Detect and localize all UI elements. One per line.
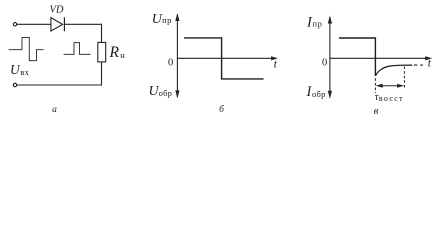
waveform: forward current level and reverse drop [339, 38, 375, 76]
svg-text:0: 0 [168, 58, 173, 69]
terminal: input top [13, 23, 16, 26]
waveform: reverse recovery curve [375, 65, 412, 76]
terminal: input bottom [13, 83, 16, 86]
wire: bottom return [17, 84, 102, 86]
svg-text:в: в [374, 106, 379, 117]
waveform: diode voltage square wave [184, 38, 264, 79]
wire: diode cathode to corner [64, 23, 102, 25]
axis: vertical Uпр/Uобр (panel б) [175, 13, 179, 98]
marker: dashed recovery end line (right, τ end) [403, 67, 405, 90]
marker: dashed drop line (left, τ start) [374, 78, 376, 93]
svg-text:а: а [52, 105, 57, 115]
diode VD [51, 17, 65, 31]
waveform: steady reverse current dashed continuation [414, 64, 423, 66]
axis: horizontal t (panel в) [330, 56, 432, 60]
marker: τвосст interval double arrow [376, 84, 404, 88]
resistor Rн [98, 42, 106, 62]
wire: corner down to resistor [101, 24, 103, 43]
axis: vertical Iпр/Iобр (panel в) [328, 16, 332, 99]
wire: resistor to bottom wire [101, 62, 103, 86]
svg-text:0: 0 [322, 58, 327, 69]
svg-text:τвосст: τвосст [375, 92, 404, 103]
waveform: output unipolar pulse [64, 43, 91, 55]
waveform: input bipolar pulse [9, 38, 44, 61]
svg-text:VD: VD [50, 5, 64, 16]
axis: horizontal t (panel б) [177, 56, 278, 60]
wire: top terminal to diode anode [17, 23, 51, 25]
